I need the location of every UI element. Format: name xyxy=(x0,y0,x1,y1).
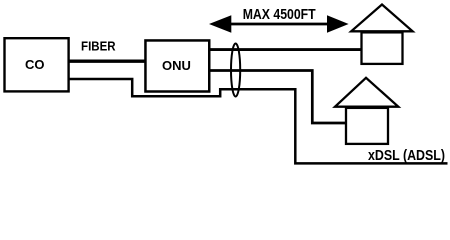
svg-text:CO: CO xyxy=(25,57,45,72)
svg-text:FIBER: FIBER xyxy=(81,40,116,54)
wire copper CO loop under ONU to bottom-right xyxy=(68,79,448,163)
arrow max distance double-headed xyxy=(228,23,330,26)
arrowhead left xyxy=(209,15,231,32)
svg-text:MAX 4500FT: MAX 4500FT xyxy=(243,6,316,23)
box ONU xyxy=(145,40,209,91)
wire fiber CO to ONU xyxy=(68,60,146,63)
house bottom roof xyxy=(335,78,398,107)
box CO xyxy=(5,38,69,91)
svg-text:xDSL (ADSL): xDSL (ADSL) xyxy=(368,147,445,164)
house top body xyxy=(362,32,403,64)
svg-text:ONU: ONU xyxy=(162,58,191,73)
wire ONU to bottom house xyxy=(209,71,346,124)
arrowhead right xyxy=(327,15,349,32)
house bottom body xyxy=(346,108,388,144)
wire ONU to top house xyxy=(209,48,362,51)
house top roof xyxy=(351,5,412,32)
ellipse cable bundle xyxy=(231,44,240,97)
